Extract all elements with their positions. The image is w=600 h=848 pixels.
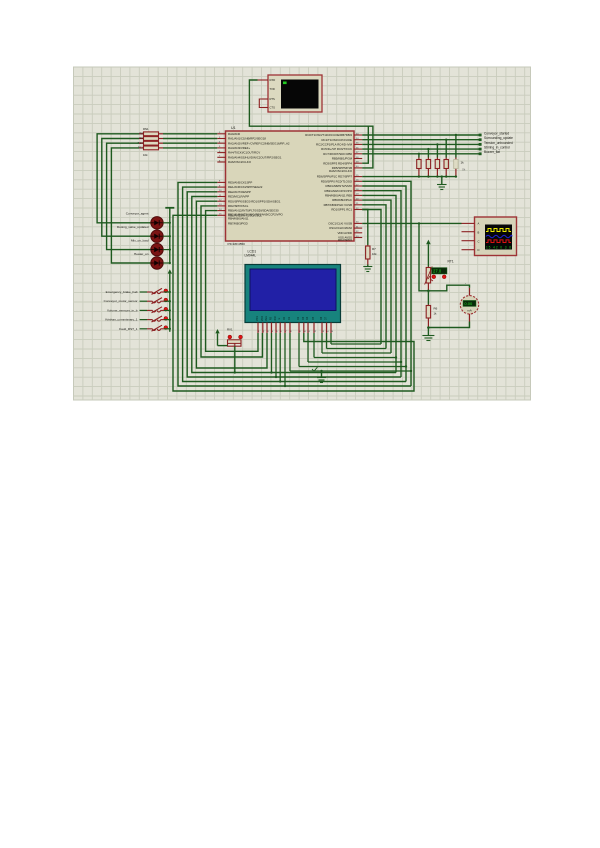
LED D2 bbox=[151, 230, 163, 242]
LCD1 pin name row bbox=[256, 316, 328, 321]
ground for resistor rail bbox=[441, 177, 443, 185]
power arrow for RV1 bbox=[215, 329, 219, 333]
svg-text:10k: 10k bbox=[372, 252, 377, 256]
push button SW1 bbox=[140, 291, 147, 293]
svg-text:RB3/AN9/CCP2/VPO: RB3/AN9/CCP2/VPO bbox=[325, 189, 353, 193]
wire LED D4 to anode rail bbox=[163, 262, 170, 264]
svg-text:mA: mA bbox=[467, 309, 472, 313]
wire U1 left pin 1 bus bbox=[178, 182, 411, 386]
wire U1 left pin 2 bus bbox=[183, 187, 406, 381]
wire terminal RXD to U1 RC7 bbox=[249, 80, 373, 168]
junction RT1-R6 bbox=[427, 290, 430, 293]
svg-text:RA6/OSC2/CLKO: RA6/OSC2/CLKO bbox=[228, 160, 252, 164]
wire U1 left pin 5 bus bbox=[196, 201, 267, 368]
wire R8 left down to LED D1 bbox=[97, 134, 151, 223]
wire R11 left down to LED D4 bbox=[111, 148, 150, 263]
svg-text:Mix_on_load: Mix_on_load bbox=[131, 239, 149, 243]
svg-text:Emergency_brake_halt: Emergency_brake_halt bbox=[106, 290, 138, 294]
virtual terminal VT1 body bbox=[268, 75, 322, 112]
resistor R11 bbox=[139, 147, 144, 149]
ammeter bottom pin bbox=[469, 314, 471, 322]
push button SW3 bbox=[140, 309, 147, 311]
LCD1 pin numbers bbox=[258, 331, 334, 333]
VT1 RTS-CTS loop wire bbox=[259, 99, 262, 108]
push button SW5 bbox=[140, 328, 147, 330]
svg-text:RW: RW bbox=[274, 316, 277, 321]
wire U1 right pin 1 bus bbox=[362, 181, 411, 386]
svg-text:RB7/KBI3/PGD: RB7/KBI3/PGD bbox=[228, 221, 248, 225]
svg-text:RB2/AN8/INT2/VMO: RB2/AN8/INT2/VMO bbox=[325, 184, 352, 188]
svg-text:10k: 10k bbox=[143, 153, 148, 157]
thermistor RT1 bbox=[427, 267, 429, 268]
output net labels bbox=[484, 131, 513, 154]
resistor R1 bbox=[418, 158, 420, 160]
U1 left pin stubs bbox=[217, 134, 225, 216]
svg-text:RE3/MCLR/VPP: RE3/MCLR/VPP bbox=[228, 195, 249, 199]
wire U1 left pin 3 bus bbox=[187, 192, 401, 377]
ammeter body bbox=[460, 296, 478, 314]
push button SW2 bbox=[140, 300, 147, 302]
wire R9 right to U1 bbox=[163, 138, 217, 140]
LCD1 pin stubs bbox=[258, 323, 331, 334]
ground under LCD bbox=[321, 371, 323, 378]
svg-text:RA2/AN2/VREF-/CVREF/C2INB/SEG1: RA2/AN2/VREF-/CVREF/C2INB/SEG16/RP_A2 bbox=[228, 141, 290, 145]
push button SW4 bbox=[140, 319, 147, 321]
resistor R6 bbox=[427, 291, 429, 305]
oscilloscope waveform yellow bbox=[486, 229, 511, 232]
VT1 screen bbox=[281, 80, 319, 109]
svg-text:TXD: TXD bbox=[270, 87, 275, 91]
svg-text:VDD AVDD: VDD AVDD bbox=[337, 231, 352, 235]
resistor R10 bbox=[139, 142, 144, 144]
svg-text:RB6/KBI2/PGC: RB6/KBI2/PGC bbox=[332, 198, 352, 202]
svg-text:RT1: RT1 bbox=[448, 260, 454, 264]
wire RV1 wiper down to rail bbox=[234, 346, 236, 372]
svg-text:RA3/AN3/VREF+: RA3/AN3/VREF+ bbox=[228, 146, 251, 150]
svg-text:Heater_on: Heater_on bbox=[134, 252, 149, 256]
power arrow above RT1 bbox=[426, 240, 431, 245]
SW5 wire to rail bbox=[164, 328, 170, 330]
oscilloscope screen bbox=[485, 225, 512, 250]
svg-text:RD1/SPP1 RC1: RD1/SPP1 RC1 bbox=[331, 208, 352, 212]
wire R10 left down to LED D3 bbox=[107, 143, 151, 249]
svg-text:RA5/AN4/SS/HLVDIN/C2OUT/RP2/SE: RA5/AN4/SS/HLVDIN/C2OUT/RP2/SEG1 bbox=[228, 155, 282, 159]
svg-text:RE2/AN7/OESPP: RE2/AN7/OESPP bbox=[228, 190, 251, 194]
svg-text:VEE: VEE bbox=[265, 316, 268, 321]
wire U1 to R7 bbox=[362, 210, 368, 246]
LCD1 screen bbox=[250, 269, 336, 311]
svg-text:OSC1/CLKI VUSB: OSC1/CLKI VUSB bbox=[328, 222, 352, 226]
svg-text:Conveyor_motor_sensor: Conveyor_motor_sensor bbox=[104, 299, 138, 303]
svg-text:Surrounding_update: Surrounding_update bbox=[484, 136, 513, 140]
wire U1 AN0 to scope channel A bbox=[362, 222, 461, 224]
ground below R6 bbox=[427, 328, 429, 336]
SW1 wire to rail bbox=[164, 291, 170, 293]
resistor R9 bbox=[139, 138, 144, 140]
svg-text:R8: R8 bbox=[139, 131, 143, 135]
oscilloscope body bbox=[475, 217, 517, 256]
svg-text:LM044L: LM044L bbox=[245, 254, 257, 258]
resistor ground rail bbox=[362, 176, 456, 178]
wire U1 right pin 2 bus bbox=[362, 186, 406, 382]
microcontroller U1 body bbox=[226, 131, 355, 241]
svg-text:1k: 1k bbox=[461, 161, 465, 165]
svg-text:B: B bbox=[478, 230, 480, 234]
svg-text:Buzzer_flat: Buzzer_flat bbox=[484, 150, 500, 154]
svg-text:RA6/OSC2/CLKO: RA6/OSC2/CLKO bbox=[329, 169, 353, 173]
schematic grid background bbox=[74, 67, 531, 400]
VT1 pin labels bbox=[270, 78, 276, 109]
svg-text:RA4/T0CKI/C1OUT/RCV: RA4/T0CKI/C1OUT/RCV bbox=[228, 151, 260, 155]
VT1 pin stubs bbox=[258, 80, 269, 108]
wire U1 left pin 7 bus bbox=[206, 211, 258, 352]
LCD1 body bbox=[245, 265, 341, 323]
wire long bottom rail A bbox=[173, 215, 414, 391]
wires U1 to output net labels bbox=[362, 134, 480, 136]
svg-text:Dosing_valve_updated: Dosing_valve_updated bbox=[117, 225, 149, 229]
svg-text:VSS: VSS bbox=[256, 316, 259, 321]
SW3 wire to rail bbox=[164, 309, 170, 311]
wire LED D2 to anode rail bbox=[163, 235, 170, 237]
svg-text:RB4/KBI0/AN11: RB4/KBI0/AN11 bbox=[228, 217, 249, 221]
svg-text:RE0/AN5/CK1SPP: RE0/AN5/CK1SPP bbox=[228, 181, 252, 185]
svg-text:CTS: CTS bbox=[270, 105, 276, 109]
svg-text:RTS: RTS bbox=[270, 97, 276, 101]
svg-text:VDD: VDD bbox=[261, 316, 264, 321]
svg-text:Krishan_commissary_1: Krishan_commissary_1 bbox=[105, 318, 137, 322]
wire R11 right to U1 bbox=[163, 147, 217, 149]
wire R8 right to U1 bbox=[163, 133, 217, 135]
svg-text:PIC18F4550: PIC18F4550 bbox=[228, 242, 246, 246]
oscilloscope pin labels bbox=[478, 221, 480, 252]
wire U1 right pin 4 bus bbox=[362, 195, 396, 372]
svg-text:RD0/SPP0 RC0/T1OSO: RD0/SPP0 RC0/T1OSO bbox=[321, 179, 353, 183]
svg-text:Fault_RST_1: Fault_RST_1 bbox=[119, 327, 138, 331]
svg-text:Conveyor_agent: Conveyor_agent bbox=[126, 212, 149, 216]
svg-text:RB5/KBI1/PGM: RB5/KBI1/PGM bbox=[332, 157, 353, 161]
wire U1 right pin 3 bus bbox=[362, 191, 401, 377]
svg-text:Volume_sensors_in_b: Volume_sensors_in_b bbox=[107, 308, 138, 312]
SW4 wire to rail bbox=[164, 319, 170, 321]
svg-text:Conveyor_started: Conveyor_started bbox=[484, 131, 509, 135]
svg-text:RV1: RV1 bbox=[227, 328, 233, 332]
RT1 temperature readout bbox=[432, 268, 447, 274]
svg-text:RA0/AN0: RA0/AN0 bbox=[228, 132, 240, 136]
wire R9 left down to LED D2 bbox=[102, 139, 151, 237]
oscilloscope pin stubs bbox=[462, 223, 475, 249]
VT1 cursor bbox=[283, 82, 287, 85]
LED anode power rail with bar symbol bbox=[165, 207, 174, 209]
LED D1 bbox=[151, 217, 163, 229]
wire U1 left pin 6 bus bbox=[201, 206, 263, 357]
svg-text:RC0/T1OSO/T13CKI/UOE/RB7KBI3: RC0/T1OSO/T13CKI/UOE/RB7KBI3 bbox=[305, 133, 352, 137]
wire U1 right pin 5 bus bbox=[362, 200, 391, 353]
ground below R7 bbox=[367, 265, 369, 267]
svg-text:R6: R6 bbox=[434, 307, 438, 311]
svg-text:RD2/SPP2: RD2/SPP2 bbox=[338, 238, 352, 242]
wire divider tap to ammeter top bbox=[428, 285, 469, 291]
svg-text:RC7/RX/DT/SDO RB6: RC7/RX/DT/SDO RB6 bbox=[323, 152, 352, 156]
button common rail with power arrow bbox=[168, 269, 172, 273]
resistor R4 bbox=[445, 158, 447, 160]
RT1 adjust buttons bbox=[432, 275, 436, 279]
resistor R5 bbox=[455, 158, 457, 160]
LED D4 bbox=[151, 257, 163, 269]
svg-text:Stirring_in_control: Stirring_in_control bbox=[484, 146, 510, 150]
svg-text:RD3/SPP3 RD4/SPP4: RD3/SPP3 RD4/SPP4 bbox=[323, 161, 352, 165]
U1 pin numbers bbox=[219, 132, 359, 238]
ammeter top pin bbox=[469, 288, 471, 296]
svg-text:0.00: 0.00 bbox=[464, 301, 473, 306]
resistor R2 bbox=[427, 158, 429, 160]
oscilloscope waveform blue bbox=[486, 235, 512, 238]
svg-text:C: C bbox=[478, 239, 480, 243]
resistor R7 bbox=[367, 245, 369, 246]
svg-text:Tension_unbounded: Tension_unbounded bbox=[484, 141, 513, 145]
wire ammeter bottom to R6 bottom bbox=[428, 322, 469, 328]
wire U1 right pin 6 bus bbox=[362, 205, 386, 349]
svg-text:27.0: 27.0 bbox=[433, 269, 442, 274]
svg-text:U1: U1 bbox=[231, 126, 236, 130]
resistor R8 bbox=[139, 133, 144, 135]
svg-text:RS: RS bbox=[270, 316, 273, 320]
wire R10 right to U1 bbox=[163, 142, 217, 144]
svg-text:RD2/SPP2/SCL: RD2/SPP2/SCL bbox=[228, 204, 249, 208]
svg-text:RB7/KBI3/PGD VUSB: RB7/KBI3/PGD VUSB bbox=[324, 203, 353, 207]
U1 pin name labels bbox=[228, 132, 353, 242]
wire U1 right pin 7 bus bbox=[362, 210, 381, 345]
svg-text:R9: R9 bbox=[139, 136, 143, 140]
svg-text:RD6/SPP6/P1C RD7/SPP7: RD6/SPP6/P1C RD7/SPP7 bbox=[317, 175, 353, 179]
svg-text:RE1/AN6/CK2SPP/SEG22: RE1/AN6/CK2SPP/SEG22 bbox=[228, 185, 263, 189]
LED D3 bbox=[151, 243, 163, 255]
wire drops to resistors bbox=[455, 135, 457, 158]
SW2 wire to rail bbox=[164, 300, 170, 302]
svg-text:D: D bbox=[478, 248, 480, 252]
U1 right pin stubs bbox=[354, 135, 362, 238]
svg-text:15 42 0 3 6: 15 42 0 3 6 bbox=[486, 245, 511, 249]
svg-text:RA1/AN1/C1INB/RP2/SEG18: RA1/AN1/C1INB/RP2/SEG18 bbox=[228, 137, 266, 141]
svg-text:RC1/T1OSI/CCP2/UOE: RC1/T1OSI/CCP2/UOE bbox=[321, 138, 352, 142]
wire U1 left pin 4 bus bbox=[192, 197, 396, 373]
svg-text:RN1: RN1 bbox=[143, 127, 149, 131]
svg-text:RXD: RXD bbox=[270, 78, 276, 82]
svg-text:A: A bbox=[478, 221, 480, 225]
svg-text:RC5/D+/VP RC6/TX/CK: RC5/D+/VP RC6/TX/CK bbox=[321, 147, 352, 151]
svg-text:RC2/CCP1/P1A RC4/D-/VM: RC2/CCP1/P1A RC4/D-/VM bbox=[316, 143, 353, 147]
oscilloscope waveform red bbox=[486, 240, 511, 243]
wire LED D1 to anode rail bbox=[163, 222, 170, 224]
svg-text:RD0/SPP0/SEG0 RD1/SPP1/SDA/SE: RD0/SPP0/SEG0 RD1/SPP1/SDA/SEG1 bbox=[228, 199, 281, 203]
svg-text:R7: R7 bbox=[372, 247, 376, 251]
svg-text:RB4/KBI0/AN11 RB5: RB4/KBI0/AN11 RB5 bbox=[325, 194, 352, 198]
potentiometer RV1 bbox=[228, 335, 232, 339]
wire scope junction down to divider bbox=[419, 223, 428, 290]
resistor R3 bbox=[436, 158, 438, 160]
svg-text:OSC2/CLKO/RA6: OSC2/CLKO/RA6 bbox=[329, 226, 352, 230]
wire branch to U1 RC6 bbox=[362, 126, 368, 163]
wire LED D3 to anode rail bbox=[163, 249, 170, 251]
